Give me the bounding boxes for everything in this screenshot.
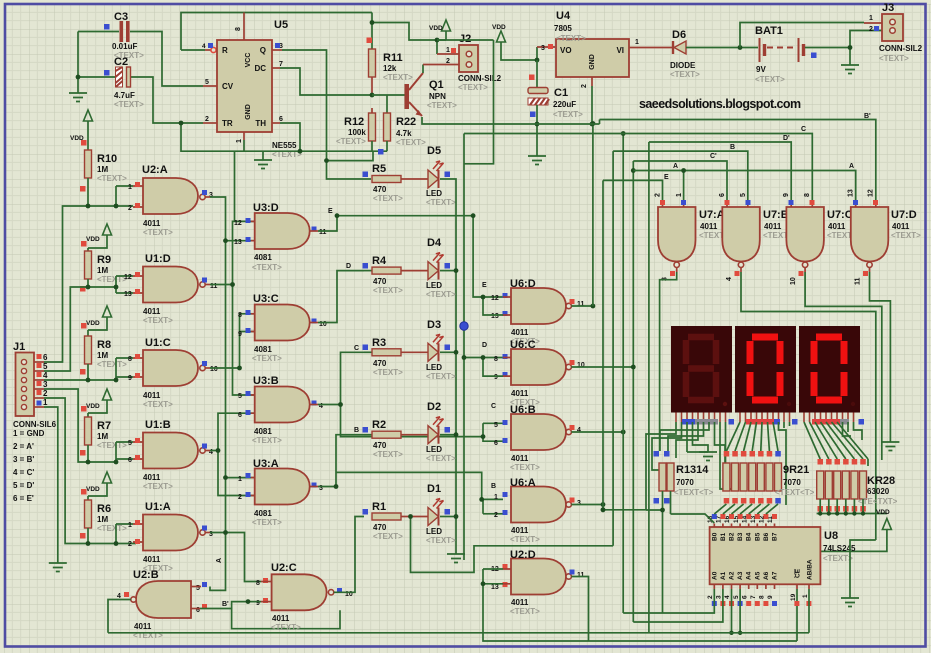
resistors R15-R21 bbox=[723, 451, 782, 504]
svg-text:8: 8 bbox=[128, 356, 132, 363]
NAND gate U1:A bbox=[128, 501, 213, 573]
svg-text:1M: 1M bbox=[97, 351, 108, 360]
svg-text:2: 2 bbox=[655, 193, 662, 197]
wire U6:B output bbox=[571, 431, 623, 433]
wire U2:C pins bbox=[261, 582, 272, 602]
svg-text:12: 12 bbox=[234, 220, 242, 227]
svg-text:C1: C1 bbox=[554, 87, 568, 99]
svg-text:1: 1 bbox=[676, 193, 683, 197]
wire U4 out to D6 bbox=[629, 47, 673, 49]
ground (J1) bbox=[49, 563, 67, 572]
svg-text:U1:A: U1:A bbox=[145, 501, 171, 513]
svg-text:<TEXT>: <TEXT> bbox=[97, 524, 127, 533]
svg-text:7: 7 bbox=[750, 595, 757, 599]
svg-text:3: 3 bbox=[541, 45, 545, 52]
svg-text:BAT1: BAT1 bbox=[755, 25, 783, 37]
resistor R12 bbox=[369, 113, 376, 141]
node junction C2/C3 bbox=[76, 75, 81, 80]
svg-text:<TEXT>: <TEXT> bbox=[114, 100, 144, 109]
wire U3:C output D net bbox=[310, 322, 318, 324]
svg-text:470: 470 bbox=[373, 523, 387, 532]
NAND gate U7:C (vertical) bbox=[783, 193, 857, 285]
svg-text:<TEXT>: <TEXT> bbox=[143, 400, 173, 409]
wire VDD to U4 VI and C1 bbox=[501, 42, 537, 60]
svg-text:4011: 4011 bbox=[272, 614, 290, 623]
NAND gate U2:B (mirrored) bbox=[117, 569, 207, 640]
NAND gate U6:D bbox=[491, 278, 585, 346]
wire fan DISP2 to RN2 bbox=[727, 422, 790, 505]
svg-text:<TEXT>: <TEXT> bbox=[891, 231, 921, 240]
power VDD (R7) bbox=[103, 389, 112, 400]
svg-text:C2: C2 bbox=[114, 56, 128, 68]
svg-text:<TEXT>: <TEXT> bbox=[373, 194, 403, 203]
svg-text:0.01uF: 0.01uF bbox=[112, 42, 137, 51]
svg-text:6 = E': 6 = E' bbox=[13, 494, 34, 503]
wire U6:C input tie bbox=[483, 358, 503, 377]
svg-text:1: 1 bbox=[446, 47, 450, 54]
wire rail C' bbox=[633, 161, 727, 200]
svg-text:7805: 7805 bbox=[554, 24, 572, 33]
wire fan DISP3 to RN3 bbox=[804, 422, 868, 466]
resistor R2 bbox=[364, 434, 372, 436]
svg-text:10: 10 bbox=[577, 362, 585, 369]
svg-text:4011: 4011 bbox=[511, 454, 529, 463]
resistor R6 bbox=[85, 500, 92, 528]
diode D6 bbox=[670, 29, 700, 79]
base rail wire DC junction to Q1 base bbox=[372, 94, 405, 96]
svg-text:<TEXT>: <TEXT> bbox=[510, 607, 540, 616]
wire J3 pin1 net bbox=[740, 23, 864, 48]
ground (U7:D output net) bbox=[881, 442, 899, 451]
svg-text:13: 13 bbox=[234, 239, 242, 246]
svg-text:13: 13 bbox=[491, 584, 499, 591]
ground (battery) bbox=[841, 65, 859, 74]
svg-text:C: C bbox=[491, 403, 496, 410]
svg-text:VDD: VDD bbox=[86, 320, 100, 327]
svg-text:1: 1 bbox=[128, 184, 132, 191]
svg-text:<TEXT>: <TEXT> bbox=[426, 536, 456, 545]
svg-text:B2: B2 bbox=[729, 532, 736, 541]
NAND gate U1:B bbox=[128, 419, 213, 491]
svg-text:<TEXT<T>: <TEXT<T> bbox=[674, 488, 714, 497]
svg-text:U7:B: U7:B bbox=[763, 209, 789, 221]
svg-text:R12: R12 bbox=[344, 116, 364, 128]
wire U3:A output B net bbox=[310, 486, 318, 488]
svg-text:B: B bbox=[354, 427, 359, 434]
svg-text:CONN-SIL2: CONN-SIL2 bbox=[458, 74, 502, 83]
wire J1.3 B' net to U1:B bbox=[34, 388, 44, 390]
svg-text:<TEXT>: <TEXT> bbox=[252, 436, 282, 445]
svg-text:VCC: VCC bbox=[245, 53, 252, 68]
wire VCC rail top bbox=[181, 13, 372, 51]
NAND gate U6:A bbox=[494, 477, 581, 544]
wire U3:D pins bbox=[251, 221, 255, 240]
svg-text:<TEXT>: <TEXT> bbox=[383, 73, 413, 82]
wire C3 right to CV of U5 bbox=[130, 32, 203, 87]
svg-text:B: B bbox=[491, 483, 496, 490]
svg-text:A6: A6 bbox=[763, 571, 770, 580]
svg-text:<TEXT>: <TEXT> bbox=[879, 54, 909, 63]
wire R pin4 of U5 bbox=[205, 49, 216, 51]
svg-text:U8: U8 bbox=[824, 530, 838, 542]
wire U3:B pins bbox=[251, 395, 255, 413]
wire Q1 collector to J2 pin2 bbox=[422, 65, 424, 74]
svg-text:CE: CE bbox=[795, 568, 802, 578]
svg-text:1: 1 bbox=[43, 398, 48, 407]
svg-text:9R21: 9R21 bbox=[783, 464, 809, 476]
svg-text:1M: 1M bbox=[97, 165, 108, 174]
wire VDD rail under RN3 bbox=[817, 499, 887, 514]
svg-text:13: 13 bbox=[124, 291, 132, 298]
svg-text:B1: B1 bbox=[720, 532, 727, 541]
capacitor C1 (polarized) bbox=[536, 60, 538, 87]
wire Q1 emitter long rail right bbox=[422, 117, 424, 124]
svg-text:3: 3 bbox=[716, 595, 723, 599]
svg-text:<TEXT>: <TEXT> bbox=[143, 316, 173, 325]
svg-text:1: 1 bbox=[869, 15, 873, 22]
wire U2:D p12 feed bbox=[411, 517, 614, 573]
svg-text:R11: R11 bbox=[383, 52, 403, 64]
svg-text:1: 1 bbox=[128, 522, 132, 529]
svg-text:GND: GND bbox=[245, 104, 252, 120]
svg-text:<TEXT>: <TEXT> bbox=[755, 75, 785, 84]
svg-text:D2: D2 bbox=[427, 401, 441, 413]
svg-text:7070: 7070 bbox=[676, 478, 694, 487]
svg-text:R8: R8 bbox=[97, 339, 111, 351]
svg-text:VDD: VDD bbox=[86, 486, 100, 493]
wire bundle vertical 4 bbox=[622, 134, 624, 614]
wire R11 to R12 bbox=[371, 77, 373, 95]
7-seg display DISP1 (dim 8) bbox=[671, 326, 732, 413]
svg-text:10: 10 bbox=[210, 366, 218, 373]
svg-text:74LS245: 74LS245 bbox=[823, 544, 856, 553]
svg-text:U5: U5 bbox=[274, 19, 288, 31]
svg-text:<TEXT>: <TEXT> bbox=[373, 286, 403, 295]
resistor R22 bbox=[386, 95, 388, 113]
wire long rail C bbox=[464, 134, 812, 201]
power VDD (J2) bbox=[442, 20, 451, 31]
wire U2:B input 5 bbox=[191, 586, 201, 588]
svg-text:9: 9 bbox=[783, 193, 790, 197]
svg-text:<TEXT>: <TEXT> bbox=[373, 450, 403, 459]
svg-text:LED: LED bbox=[426, 363, 442, 372]
wire U3:A pins bbox=[251, 478, 255, 496]
svg-text:<TEXT>: <TEXT> bbox=[426, 198, 456, 207]
svg-text:1: 1 bbox=[802, 594, 809, 598]
ground (C1) bbox=[528, 156, 546, 165]
power VDD (R8) bbox=[103, 306, 112, 317]
wire U7:C output bbox=[805, 272, 882, 460]
capacitor C2 (polarized) bbox=[104, 56, 144, 109]
svg-text:J3: J3 bbox=[882, 2, 894, 14]
wire J2 pin1 net down bbox=[437, 40, 494, 560]
resistor R3 bbox=[364, 351, 372, 353]
svg-text:R10: R10 bbox=[97, 153, 117, 165]
svg-text:NE555: NE555 bbox=[272, 141, 297, 150]
svg-text:GND: GND bbox=[589, 54, 596, 70]
svg-text:2: 2 bbox=[205, 116, 209, 123]
svg-text:AB/BA: AB/BA bbox=[807, 559, 814, 580]
svg-text:3: 3 bbox=[209, 192, 213, 199]
wire J1.5 D' net to U1:D bbox=[34, 370, 44, 372]
svg-text:6: 6 bbox=[43, 353, 48, 362]
svg-text:<TEXT>: <TEXT> bbox=[252, 518, 282, 527]
svg-text:4: 4 bbox=[726, 277, 733, 281]
svg-text:<TEXT>: <TEXT> bbox=[97, 360, 127, 369]
NAND gate U6:B bbox=[494, 404, 581, 472]
svg-text:11: 11 bbox=[319, 229, 327, 236]
wire U1:D output staircase bbox=[205, 284, 210, 286]
DISP3 pins bbox=[804, 413, 854, 423]
svg-text:<TEXT>: <TEXT> bbox=[458, 83, 488, 92]
wire U2:B input 6 bbox=[191, 608, 200, 610]
svg-text:4011: 4011 bbox=[828, 222, 846, 231]
svg-text:2: 2 bbox=[446, 58, 450, 65]
svg-text:12: 12 bbox=[124, 274, 132, 281]
svg-text:19: 19 bbox=[790, 593, 797, 601]
ground (U5 pin1) bbox=[262, 151, 264, 160]
svg-text:DC: DC bbox=[254, 64, 266, 73]
wire bundle vertical 5 bbox=[632, 161, 634, 622]
wire TH pin6 down to GND rail bbox=[272, 122, 280, 124]
svg-text:A2: A2 bbox=[729, 571, 736, 580]
svg-text:U1:D: U1:D bbox=[145, 253, 171, 265]
svg-text:9: 9 bbox=[128, 375, 132, 382]
svg-text:63020: 63020 bbox=[867, 487, 890, 496]
wire rail A bbox=[633, 171, 855, 201]
svg-text:6: 6 bbox=[741, 595, 748, 599]
wire C2 right to TR of U5 bbox=[131, 77, 203, 123]
wire U7:B output bbox=[741, 272, 876, 521]
svg-text:6: 6 bbox=[279, 116, 283, 123]
svg-text:8: 8 bbox=[235, 27, 242, 31]
svg-text:R4: R4 bbox=[372, 255, 387, 267]
LED D5 bbox=[401, 178, 428, 180]
svg-text:11: 11 bbox=[577, 572, 585, 579]
resistor R7 bbox=[85, 417, 92, 445]
DISP3 bus highlight bars bbox=[812, 419, 840, 425]
svg-text:3: 3 bbox=[577, 500, 581, 507]
svg-text:U1:C: U1:C bbox=[145, 337, 171, 349]
svg-text:5: 5 bbox=[733, 595, 740, 599]
svg-text:LED: LED bbox=[426, 527, 442, 536]
svg-text:C: C bbox=[801, 126, 806, 133]
resistor R5 bbox=[372, 176, 401, 183]
svg-text:4011: 4011 bbox=[700, 222, 718, 231]
wire C2 left bbox=[78, 76, 115, 78]
wire RN1 bottoms bbox=[603, 491, 671, 613]
NAND gate U7:B (vertical) bbox=[719, 193, 793, 281]
svg-text:<TEXT>: <TEXT> bbox=[373, 368, 403, 377]
svg-text:R1: R1 bbox=[372, 501, 386, 513]
svg-text:B6: B6 bbox=[763, 532, 770, 541]
DISP2 bus highlight bars bbox=[746, 419, 774, 425]
wire U6:A output bbox=[571, 504, 603, 506]
svg-text:<TEXT<T>: <TEXT<T> bbox=[775, 488, 815, 497]
AND gate U3:A bbox=[238, 458, 323, 527]
svg-text:VDD: VDD bbox=[86, 403, 100, 410]
svg-text:9V: 9V bbox=[756, 65, 766, 74]
wire bundle vertical 2 bbox=[602, 180, 604, 509]
svg-text:NPN: NPN bbox=[429, 92, 446, 101]
svg-text:A1: A1 bbox=[720, 571, 727, 580]
svg-text:R6: R6 bbox=[97, 503, 111, 515]
svg-text:A7: A7 bbox=[772, 571, 779, 580]
svg-text:8: 8 bbox=[238, 312, 242, 319]
svg-text:B3: B3 bbox=[737, 532, 744, 541]
svg-text:A: A bbox=[216, 558, 223, 563]
AND gate U3:C bbox=[238, 293, 327, 363]
wire bundle vertical 1 bbox=[592, 124, 594, 307]
svg-text:B4: B4 bbox=[746, 532, 753, 541]
svg-text:R2: R2 bbox=[372, 419, 386, 431]
svg-text:8: 8 bbox=[494, 356, 498, 363]
svg-text:VDD: VDD bbox=[492, 24, 506, 31]
wire Q pin3 of U5 down to R5 bbox=[272, 49, 282, 51]
resistor R1 bbox=[372, 513, 401, 520]
svg-text:B': B' bbox=[864, 113, 871, 120]
LED D2 bbox=[401, 434, 428, 436]
svg-text:5: 5 bbox=[494, 422, 498, 429]
svg-text:D: D bbox=[482, 342, 487, 349]
svg-text:2: 2 bbox=[869, 26, 873, 33]
svg-text:<TEXT>: <TEXT> bbox=[553, 110, 583, 119]
svg-text:2 = A': 2 = A' bbox=[13, 442, 34, 451]
svg-text:<TEXT>: <TEXT> bbox=[252, 263, 282, 272]
svg-text:8: 8 bbox=[804, 193, 811, 197]
resistor R11 bbox=[371, 13, 373, 50]
svg-text:<TEXT>: <TEXT> bbox=[143, 482, 173, 491]
svg-text:TH: TH bbox=[255, 119, 266, 128]
DISP2 pins bbox=[740, 413, 790, 423]
svg-text:D1: D1 bbox=[427, 483, 441, 495]
svg-text:1M: 1M bbox=[97, 515, 108, 524]
svg-text:12: 12 bbox=[868, 189, 875, 197]
battery BAT1 bbox=[755, 25, 817, 84]
regulator U4 7805 bbox=[554, 10, 639, 88]
svg-text:B: B bbox=[730, 144, 735, 151]
svg-text:VDD: VDD bbox=[86, 236, 100, 243]
svg-text:11: 11 bbox=[577, 301, 585, 308]
power VDD (R6) bbox=[103, 472, 112, 483]
svg-text:U7:A: U7:A bbox=[699, 209, 725, 221]
pin4 marker bbox=[208, 43, 213, 48]
svg-text:R5: R5 bbox=[372, 163, 386, 175]
svg-text:4011: 4011 bbox=[143, 555, 161, 564]
svg-text:D3: D3 bbox=[427, 319, 441, 331]
resistor R13 bbox=[659, 463, 666, 491]
wire DC pin7 to R11/R12 junction bbox=[272, 67, 280, 69]
svg-text:470: 470 bbox=[373, 185, 387, 194]
wire U4 GND pin2 down to rail bbox=[591, 77, 593, 86]
svg-text:9: 9 bbox=[494, 374, 498, 381]
resistor R8 bbox=[85, 336, 92, 364]
svg-text:4011: 4011 bbox=[511, 328, 529, 337]
wire long rail B' bbox=[424, 120, 876, 201]
svg-text:U1:B: U1:B bbox=[145, 419, 171, 431]
svg-text:LED: LED bbox=[426, 281, 442, 290]
capacitor C3 bbox=[104, 11, 144, 60]
svg-text:7: 7 bbox=[279, 61, 283, 68]
svg-text:U2:C: U2:C bbox=[271, 562, 297, 574]
svg-text:A4: A4 bbox=[746, 571, 753, 580]
svg-text:LED: LED bbox=[426, 189, 442, 198]
svg-text:4.7uF: 4.7uF bbox=[114, 91, 135, 100]
svg-text:7070: 7070 bbox=[783, 478, 801, 487]
svg-text:12k: 12k bbox=[383, 64, 397, 73]
svg-text:<TEXT>: <TEXT> bbox=[556, 34, 586, 43]
svg-text:D5: D5 bbox=[427, 145, 441, 157]
svg-text:4011: 4011 bbox=[511, 389, 529, 398]
svg-text:1M: 1M bbox=[97, 432, 108, 441]
wire J1.1 GND to ground bbox=[34, 406, 44, 408]
LED D4 bbox=[401, 270, 428, 272]
svg-text:100k: 100k bbox=[348, 128, 366, 137]
svg-text:CONN-SIL6: CONN-SIL6 bbox=[13, 420, 57, 429]
svg-text:A3: A3 bbox=[737, 571, 744, 580]
svg-text:1: 1 bbox=[635, 39, 639, 46]
svg-text:<TEXT>: <TEXT> bbox=[373, 532, 403, 541]
svg-text:470: 470 bbox=[373, 359, 387, 368]
connector J3 bbox=[879, 2, 923, 63]
svg-text:B7: B7 bbox=[772, 532, 779, 541]
svg-text:11: 11 bbox=[855, 277, 862, 285]
svg-text:D6: D6 bbox=[672, 29, 686, 41]
wire U8 bottom row 3 bbox=[732, 589, 810, 633]
svg-text:DIODE: DIODE bbox=[670, 61, 696, 70]
wire bottom long rail bbox=[108, 632, 809, 634]
svg-text:A5: A5 bbox=[754, 571, 761, 580]
wire U1:A output staircase bbox=[205, 532, 210, 534]
svg-text:U3:D: U3:D bbox=[253, 202, 279, 214]
NAND gate U6:C bbox=[494, 339, 585, 407]
wire rail B bbox=[613, 151, 748, 200]
svg-text:4011: 4011 bbox=[143, 307, 161, 316]
svg-text:5: 5 bbox=[43, 362, 48, 371]
LED D1 bbox=[401, 516, 428, 518]
svg-text:2: 2 bbox=[238, 494, 242, 501]
svg-text:4 = C': 4 = C' bbox=[13, 468, 34, 477]
svg-text:C3: C3 bbox=[114, 11, 128, 23]
svg-text:VO: VO bbox=[560, 46, 572, 55]
svg-text:4081: 4081 bbox=[254, 427, 272, 436]
svg-text:5: 5 bbox=[238, 393, 242, 400]
svg-text:4011: 4011 bbox=[892, 222, 910, 231]
svg-text:U3:A: U3:A bbox=[253, 458, 279, 470]
svg-text:D': D' bbox=[783, 135, 790, 142]
wire U3:B output C net bbox=[310, 404, 318, 406]
wire D6 to battery bbox=[686, 47, 758, 49]
wire U8 bottom row 1 bbox=[623, 589, 714, 613]
wire J1.2 A' net to U1:A bbox=[34, 397, 44, 399]
wire U3:D output E net bbox=[310, 230, 318, 232]
svg-text:4081: 4081 bbox=[254, 253, 272, 262]
wire RN2 bottoms to U8 bbox=[671, 504, 779, 523]
power VDD (R9) bbox=[103, 224, 112, 235]
svg-text:4081: 4081 bbox=[254, 345, 272, 354]
wire U3:C pins bbox=[251, 314, 255, 332]
svg-text:220uF: 220uF bbox=[553, 100, 576, 109]
svg-text:<TE<TXT>: <TE<TXT> bbox=[858, 497, 898, 506]
svg-text:2: 2 bbox=[494, 512, 498, 519]
power VDD (U4 input) bbox=[497, 31, 506, 42]
wire U6:C output bbox=[571, 366, 633, 368]
svg-text:1: 1 bbox=[238, 476, 242, 483]
svg-text:LED: LED bbox=[426, 445, 442, 454]
wire battery to J3 pin2 and ground bbox=[805, 31, 882, 66]
pin 1 wire of U5 to ground bbox=[243, 132, 245, 140]
svg-text:4011: 4011 bbox=[143, 219, 161, 228]
